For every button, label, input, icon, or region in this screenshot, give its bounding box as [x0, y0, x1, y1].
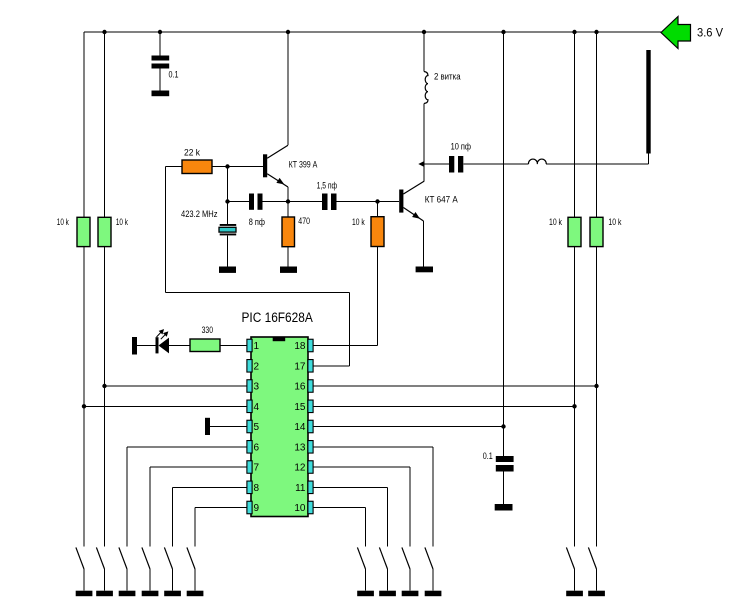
svg-text:10 пф: 10 пф [451, 142, 472, 153]
svg-text:423.2 MHz: 423.2 MHz [181, 209, 218, 220]
svg-text:10 k: 10 k [608, 217, 621, 228]
svg-text:8 пф: 8 пф [249, 217, 265, 228]
svg-text:330: 330 [202, 325, 213, 336]
svg-text:3: 3 [254, 382, 260, 393]
svg-text:10 k: 10 k [549, 217, 562, 228]
svg-text:КТ 647 А: КТ 647 А [425, 195, 459, 206]
svg-text:2: 2 [254, 361, 260, 372]
svg-text:8: 8 [254, 483, 260, 494]
svg-text:1,5 пф: 1,5 пф [317, 181, 338, 192]
svg-text:12: 12 [294, 463, 306, 474]
svg-text:0.1: 0.1 [483, 451, 493, 462]
svg-text:10: 10 [294, 503, 306, 514]
svg-text:15: 15 [294, 402, 306, 413]
svg-text:КТ 399 А: КТ 399 А [289, 160, 318, 171]
svg-text:11: 11 [295, 483, 306, 494]
svg-text:18: 18 [294, 341, 306, 352]
svg-text:4: 4 [254, 402, 260, 413]
svg-text:13: 13 [294, 442, 306, 453]
svg-text:0.1: 0.1 [169, 70, 179, 81]
svg-text:17: 17 [294, 361, 306, 372]
svg-text:5: 5 [254, 422, 260, 433]
svg-text:PIC 16F628A: PIC 16F628A [242, 310, 313, 325]
svg-text:10 k: 10 k [116, 217, 128, 228]
svg-text:7: 7 [254, 463, 260, 474]
svg-text:470: 470 [298, 216, 310, 227]
svg-text:9: 9 [254, 503, 260, 514]
svg-text:1: 1 [254, 341, 260, 352]
svg-text:14: 14 [294, 422, 306, 433]
svg-text:10 k: 10 k [57, 217, 69, 228]
svg-text:2 витка: 2 витка [434, 72, 461, 83]
svg-text:10 k: 10 k [352, 217, 365, 228]
svg-text:6: 6 [254, 442, 260, 453]
svg-text:22 k: 22 k [184, 147, 200, 158]
svg-text:16: 16 [294, 382, 306, 393]
svg-text:3.6 V: 3.6 V [697, 25, 723, 39]
